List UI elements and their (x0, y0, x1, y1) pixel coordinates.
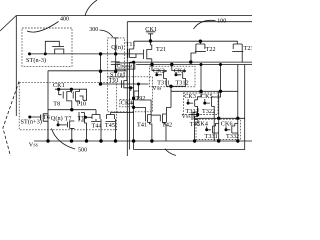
CK4 stub (131, 102, 134, 104)
CK1 lower wire (55, 89, 87, 100)
node dot bus2 (170, 63, 173, 66)
leader curve bottom (165, 149, 176, 156)
leader curve 500 (52, 129, 76, 150)
CK5 stem (204, 99, 206, 103)
bottom wire to right (134, 149, 245, 151)
node dot (114, 139, 117, 142)
node dot bus1 x220 (219, 63, 222, 66)
transistor T22 gate bar (195, 51, 206, 53)
node dot (99, 82, 102, 85)
stray curve crossing top edge (85, 0, 97, 16)
dashed box block B (184, 93, 219, 115)
right vertical A (237, 65, 239, 142)
transistor T10 drain stub (80, 89, 84, 100)
leader curve for 100 (194, 20, 216, 29)
transistor T11 channel (130, 49, 134, 57)
transistor T11 gate bar (127, 49, 129, 58)
node dot (236, 117, 239, 120)
T312 drain/source (172, 65, 186, 87)
node dot (85, 139, 88, 142)
node dot feed T322 (219, 90, 222, 93)
transistor T22 source (191, 49, 196, 62)
transistor T7 channel (70, 121, 75, 128)
transistor T21 drain stub from CK1 dot (151, 41, 152, 50)
svg-text:300: 300 (89, 27, 98, 33)
svg-text:Q(n): Q(n) (51, 115, 63, 122)
node dot (99, 139, 102, 142)
wire y109.7 (48, 109, 96, 111)
Q lower wire (58, 121, 67, 125)
transistor T23 channel (233, 44, 242, 49)
transistor T21 source down to buses (151, 59, 153, 65)
svg-text:T21: T21 (156, 47, 166, 53)
transistor T92 (133, 91, 141, 100)
T41 source drop (149, 122, 152, 141)
svg-text:T8: T8 (53, 102, 60, 108)
left Vss riser (47, 71, 49, 141)
ST(n-3) wire (28, 53, 143, 55)
node dot (70, 88, 73, 91)
ST(n+3) wire (30, 115, 41, 120)
T312 gate bar (176, 72, 183, 79)
zoom diagonal top-left (0, 16, 16, 32)
transistor T4 (input TFT in 400 box) gate wire (45, 41, 59, 54)
wire y71 (48, 70, 127, 72)
T41 gate feed+bar (134, 107, 146, 121)
transistor T4 channel (55, 49, 64, 54)
svg-text:CK4: CK4 (196, 121, 208, 127)
svg-text:T311: T311 (157, 80, 170, 86)
vertical x218.7 (218, 91, 220, 141)
T91-T92 wire (131, 88, 134, 91)
node dot (132, 97, 135, 100)
transistor T23 source (241, 49, 243, 62)
svg-text:CK4: CK4 (121, 101, 133, 107)
dashed box 400 (22, 28, 72, 66)
transistor T8 channel (67, 92, 71, 101)
right vertical 2 (244, 65, 246, 150)
wire to Vss label A (101, 83, 149, 85)
node dot CK1 (149, 39, 152, 42)
CK3 stem (187, 99, 189, 103)
node dot (193, 139, 196, 142)
svg-text:CK3: CK3 (184, 94, 196, 100)
svg-text:T92: T92 (135, 96, 145, 102)
svg-text:T332: T332 (226, 134, 239, 140)
node dot (114, 70, 117, 73)
vertical Q riser (100, 54, 102, 84)
T42 drain riser (166, 91, 171, 114)
T321 gate dot (187, 102, 190, 105)
svg-text:Cboost: Cboost (117, 64, 133, 70)
T332 (226, 124, 238, 134)
transistor T41 channel (148, 115, 152, 123)
T9-T44 wire (85, 116, 93, 118)
dashed box 300 (108, 38, 125, 77)
node dot (150, 139, 153, 142)
svg-text:CK5: CK5 (201, 94, 213, 100)
node dot (44, 52, 47, 55)
T311 gate bar (157, 72, 164, 79)
T321 (171, 65, 238, 92)
Cboost box (115, 63, 135, 69)
transistor T21 gate bar (142, 50, 144, 60)
svg-text:T42: T42 (162, 122, 172, 128)
node dot (99, 70, 102, 73)
node dot (217, 117, 220, 120)
T322 (205, 91, 221, 111)
node dot (132, 139, 135, 142)
transistor T44 (91, 110, 101, 141)
node dot (70, 108, 73, 111)
transistor T91 (122, 71, 131, 88)
svg-text:T45: T45 (105, 123, 115, 129)
leader arc for 400 (27, 22, 59, 33)
T6/T7 source drops (48, 121, 74, 141)
T42 gate feed wire (151, 114, 160, 116)
T331 gate dot (205, 128, 208, 131)
T92 drain riser (138, 84, 140, 91)
node dot (132, 61, 135, 64)
transistor T10 gate stem (70, 89, 73, 92)
node dot (99, 52, 102, 55)
dashed box block C (196, 119, 241, 139)
dashed sub-box CK4 mid (120, 100, 133, 107)
transistor T23 gate bar (232, 51, 243, 53)
svg-text:T91: T91 (109, 78, 119, 84)
transistor T22 drain stem (199, 41, 201, 44)
node dot feed T321 (199, 90, 202, 93)
Q(n) input stub (113, 38, 119, 54)
T41 drain hook (140, 100, 151, 115)
svg-text:T23: T23 (244, 46, 253, 52)
node dot bus1 (189, 60, 192, 63)
inner box 100 left edge (126, 22, 128, 156)
transistor T42 channel (163, 114, 167, 122)
block C top wire (195, 117, 245, 119)
svg-text:T22: T22 (206, 47, 216, 53)
block A out wire (166, 86, 185, 91)
T42 source drop (165, 122, 166, 141)
transistor T6 gate bar (40, 115, 42, 121)
svg-text:ST(n-3): ST(n-3) (26, 57, 46, 64)
bus2 (136, 64, 252, 66)
node dot Q(n) (114, 52, 117, 55)
transistor T6 channel (43, 114, 48, 121)
T311 drain/source (152, 65, 166, 87)
node dot T22 drain (199, 40, 202, 43)
node dot (28, 52, 31, 55)
T8/T10 source drops (71, 101, 80, 110)
node dot (84, 116, 87, 119)
bus1 left drop (133, 62, 135, 150)
leader curve for 300 (100, 30, 113, 37)
transistor T10 gate bar (72, 92, 74, 99)
node dot (28, 116, 31, 119)
node dot (70, 139, 73, 142)
wire y112.5 (111, 112, 134, 114)
transistor T42 gate bar (159, 115, 161, 122)
transistor T8 drain stub (70, 89, 72, 91)
transistor T9 channel (79, 112, 87, 141)
node dot (46, 139, 49, 142)
svg-text:100: 100 (217, 18, 226, 24)
transistor T45 (106, 113, 116, 142)
big dashed box bottom-left (19, 82, 117, 130)
transistor T10 channel (76, 92, 80, 101)
dashed box block A (150, 66, 196, 87)
transistor T4 gate bar (52, 46, 64, 48)
node dot (129, 86, 132, 89)
inner box 100 top edge (127, 21, 252, 23)
svg-text:T41: T41 (137, 122, 147, 128)
zoom diagonal bottom-left (3, 82, 19, 157)
outer panel top edge (16, 15, 252, 17)
T322 gate dot (203, 102, 206, 105)
node dot bus2 (150, 63, 153, 66)
svg-text:T10: T10 (76, 102, 86, 108)
transistor T8 gate bar (62, 92, 64, 99)
G(n) output drop (128, 62, 130, 150)
capacitor Cboost stem bottom (115, 65, 117, 72)
svg-text:500: 500 (78, 147, 87, 153)
svg-text:T44: T44 (92, 123, 102, 129)
node dot T321 source (196, 113, 199, 116)
bus1 (129, 61, 252, 63)
node dot (57, 88, 60, 91)
node dot block A out (169, 85, 172, 88)
capacitor Cboost plates (111, 62, 120, 65)
svg-text:T6: T6 (43, 115, 50, 121)
transistor T11 source stub (134, 54, 136, 58)
transistor T7 gate bar (66, 122, 68, 128)
node dot Q lower (57, 123, 60, 126)
block B source drops (190, 112, 215, 142)
transistor T11 drain stub (133, 41, 135, 49)
transistor T43 (192, 108, 198, 123)
Vss bus (34, 140, 252, 142)
T312 gate dot (175, 73, 178, 76)
svg-text:CK6: CK6 (221, 121, 233, 127)
transistor T321 (188, 91, 201, 114)
outer panel left edge (15, 16, 17, 117)
svg-text:T331: T331 (205, 134, 218, 140)
T331 (207, 124, 219, 134)
CK1 wire (134, 41, 238, 44)
svg-text:400: 400 (60, 17, 69, 23)
svg-text:CK1: CK1 (145, 27, 157, 33)
T91 block dashed box (108, 77, 153, 112)
node dot (236, 139, 239, 142)
transistor T22 channel (196, 44, 205, 49)
node dot bus2 x201 (200, 63, 203, 66)
svg-text:CK2: CK2 (153, 68, 165, 74)
svg-text:T322: T322 (202, 109, 215, 115)
transistor T21 channel (147, 50, 152, 59)
transistor T8 gate stem (59, 89, 62, 95)
T332 gate dot (225, 128, 228, 131)
node dot (217, 139, 220, 142)
svg-text:ST(n+3): ST(n+3) (21, 118, 43, 125)
svg-text:T312: T312 (176, 80, 189, 86)
svg-text:Q(n): Q(n) (111, 44, 123, 51)
T311 gate dot (155, 73, 158, 76)
capacitor Cboost stem top (115, 54, 117, 62)
